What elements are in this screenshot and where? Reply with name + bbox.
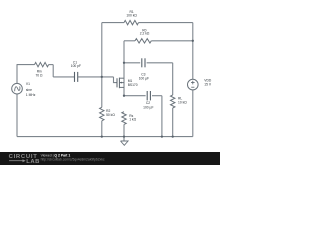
svg-text:2.2 kΩ: 2.2 kΩ [140, 32, 150, 36]
svg-text:100 µF: 100 µF [139, 77, 149, 81]
svg-text:sine: sine [26, 88, 32, 92]
svg-text:100 µF: 100 µF [143, 106, 153, 110]
svg-text:1 kΩ: 1 kΩ [129, 118, 136, 122]
svg-text:BS170: BS170 [128, 83, 138, 87]
svg-text:100 kΩ: 100 kΩ [126, 14, 137, 18]
svg-text:http://circuitlab.com/c/5qv4e8: http://circuitlab.com/c/5qv4e8m2ak9fp62x… [41, 158, 105, 162]
svg-text:C2: C2 [146, 101, 150, 105]
svg-text:50 kΩ: 50 kΩ [106, 113, 115, 117]
svg-text:1 MHz: 1 MHz [26, 93, 36, 97]
svg-text:70 Ω: 70 Ω [35, 73, 43, 77]
svg-text:10 kΩ: 10 kΩ [178, 101, 187, 105]
svg-text:LAB: LAB [26, 159, 40, 165]
svg-text:100 pF: 100 pF [71, 64, 81, 68]
svg-text:15 V: 15 V [204, 83, 212, 87]
svg-text:V1: V1 [26, 82, 30, 86]
